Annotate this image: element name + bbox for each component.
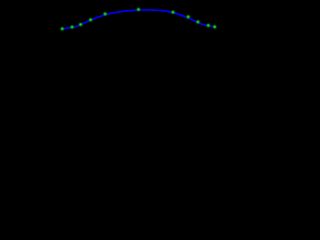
data marker P8 [186,15,190,19]
background [0,0,276,39]
data marker P11 [213,25,217,29]
data marker P7 [171,10,175,14]
data marker P10 [206,23,210,27]
data marker P9 [196,20,200,24]
blue fitted curve (line series) [62,10,215,29]
data marker P2 [70,25,74,29]
data marker P4 [88,18,92,22]
data marker P3 [78,22,82,26]
data marker P6 [136,7,140,11]
data marker P5 [103,12,107,16]
data marker P1 [60,27,64,31]
